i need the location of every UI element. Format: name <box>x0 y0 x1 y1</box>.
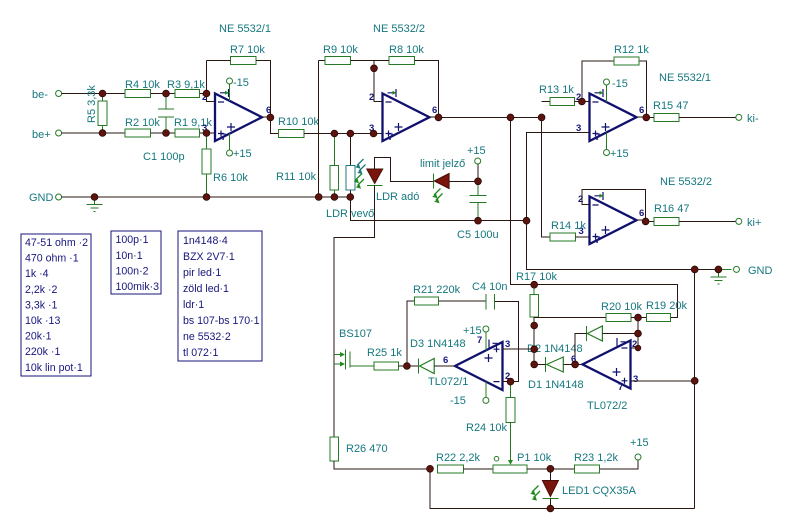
LDR vevo (photoresistor) <box>326 134 374 221</box>
op3 +15 power pin <box>604 132 629 160</box>
junction op2 output / R8 feedback <box>435 114 442 121</box>
svg-text:3: 3 <box>505 339 510 350</box>
terminal be- <box>32 89 62 101</box>
junction R13 / R12 / op3 pin2 <box>579 98 586 105</box>
resistor R22 2,2k <box>436 452 493 473</box>
svg-text:100p·1: 100p·1 <box>116 234 149 246</box>
junction R26 / R22 / bottom row <box>427 465 434 472</box>
svg-text:6: 6 <box>443 355 448 366</box>
op-amp U4 NE 5532/2 right <box>578 176 712 246</box>
TL072/1 -15 power pin <box>450 382 489 407</box>
svg-text:pir led·1: pir led·1 <box>183 267 221 279</box>
resistor R5 3,3k <box>86 85 107 133</box>
svg-text:NE 5532/1: NE 5532/1 <box>659 72 711 84</box>
diode D2 1N4148 <box>527 326 638 364</box>
svg-text:R12 1k: R12 1k <box>614 44 649 56</box>
wire LED ado anode to limit LED <box>375 157 434 181</box>
svg-text:R11 10k: R11 10k <box>276 171 317 183</box>
LED1 CQX35A <box>530 469 636 509</box>
wire R9-R8 junction to op2 pin2 <box>351 61 389 102</box>
parts table 3 <box>178 231 262 361</box>
parts table 2 <box>111 231 161 294</box>
svg-text:+15: +15 <box>467 145 486 157</box>
svg-text:bs 107-bs 170·1: bs 107-bs 170·1 <box>183 315 260 327</box>
LED LDR ado light arrows <box>354 174 364 189</box>
potentiometer P1 10k <box>493 422 552 473</box>
svg-text:6: 6 <box>639 208 644 219</box>
op-amp U1 NE 5532/1 <box>202 23 271 143</box>
junction R3 out / R7 feedback / op1 pin2 <box>203 90 210 97</box>
wire op1 pin2 jog <box>207 61 216 102</box>
junction D1 cathode node <box>531 361 538 368</box>
op-amp U5 TL072/1 (mirrored) <box>428 335 510 390</box>
svg-text:7: 7 <box>388 132 393 143</box>
diode D3 1N4148 <box>410 338 466 374</box>
capacitor C4 10n <box>472 281 507 310</box>
svg-text:R8 10k: R8 10k <box>389 44 424 56</box>
junction R5 bottom / be+ row <box>99 130 106 137</box>
svg-text:D1 1N4148: D1 1N4148 <box>528 379 584 391</box>
resistor R24 10k <box>466 382 515 434</box>
wire op2 output bus <box>439 116 542 118</box>
svg-text:R22 2,2k: R22 2,2k <box>436 452 481 464</box>
junction D2 drop / TL072-2 output <box>572 361 579 368</box>
svg-text:BZX 2V7·1: BZX 2V7·1 <box>183 251 235 263</box>
resistor R19 20k <box>646 300 687 322</box>
junction R17 bottom node <box>531 322 538 329</box>
svg-text:6: 6 <box>639 105 644 116</box>
op-amp U6 TL072/2 (mirrored) <box>571 338 638 412</box>
svg-text:R10 10k: R10 10k <box>278 116 319 128</box>
resistor R9 10k <box>323 44 358 65</box>
wire op3 pin3 from GND row <box>527 133 590 221</box>
junction op4 output / feedback / R16 <box>642 218 649 225</box>
svg-text:-15: -15 <box>450 395 466 407</box>
terminal +15 top <box>467 145 486 164</box>
wire GND net right <box>527 221 723 270</box>
resistor R23 1,2k <box>574 452 619 473</box>
op-amp U3 NE 5532/1 right <box>576 72 711 143</box>
svg-text:LED1 CQX35A: LED1 CQX35A <box>562 485 637 497</box>
junction TL072-1 pin2 / C4 feedback / R24 <box>507 378 514 385</box>
junction R20-R19 / TL072-2 pin2 <box>635 314 642 321</box>
junction sidechain bus / R17 top <box>531 281 538 288</box>
svg-text:3,3k ·1: 3,3k ·1 <box>25 299 57 311</box>
TL072/1 +15 power pin <box>463 325 489 351</box>
svg-text:100mik·3: 100mik·3 <box>116 281 160 293</box>
svg-text:be-: be- <box>32 89 48 101</box>
svg-text:LDR adó: LDR adó <box>376 191 419 203</box>
wire bottom row to LED1 and R23 <box>430 460 695 509</box>
svg-text:R14 1k: R14 1k <box>551 220 586 232</box>
svg-text:R24 10k: R24 10k <box>466 422 507 434</box>
junction limit LED / +15 / C5 <box>475 178 482 185</box>
svg-text:C4 10n: C4 10n <box>472 281 507 293</box>
svg-text:+15: +15 <box>610 148 629 160</box>
junction P1 out / LED1 anode / R23 <box>547 465 554 472</box>
terminal GND right <box>734 265 773 277</box>
wire GND drop to row 221 <box>350 197 526 221</box>
svg-text:R2 10k: R2 10k <box>125 117 160 129</box>
junction LED1 cathode / bottom row <box>547 505 554 512</box>
wire limit LED to +15 <box>449 164 478 181</box>
wire R9 left branch <box>319 61 326 198</box>
wire row op2 pin3 <box>304 133 383 135</box>
junction C5 bottom / GND row <box>475 217 482 224</box>
svg-text:+15: +15 <box>630 437 649 449</box>
wire bus down to R17/R19 row <box>511 117 678 317</box>
junction R4-R3 / C1 top <box>163 90 170 97</box>
svg-text:2: 2 <box>578 194 583 205</box>
svg-text:GND: GND <box>748 265 773 277</box>
junction op3 output / R12 / R15 <box>643 114 650 121</box>
terminal GND left <box>29 192 62 204</box>
transistor Q1 BS107 <box>334 328 374 370</box>
resistor R10 10k <box>278 116 319 138</box>
junction R11 bottom / GND rail <box>331 194 338 201</box>
svg-text:R25 1k: R25 1k <box>367 347 402 359</box>
resistor R26 470 <box>330 437 430 469</box>
junction TL072-2 pin3 / GND branch <box>691 377 698 384</box>
wire TL072/1 pin2 and C4 feedback <box>495 301 519 381</box>
svg-text:R9 10k: R9 10k <box>323 44 358 56</box>
resistor R21 220k <box>413 284 461 305</box>
svg-text:ne 5532·2: ne 5532·2 <box>183 331 231 343</box>
terminal ki- <box>736 113 759 125</box>
svg-text:1n4148·4: 1n4148·4 <box>183 235 228 247</box>
svg-text:-15: -15 <box>233 77 249 89</box>
svg-text:zöld led·1: zöld led·1 <box>183 283 229 295</box>
junction op2 output / sidechain bus <box>507 114 514 121</box>
svg-text:TL072/1: TL072/1 <box>428 376 468 388</box>
resistor R1 9,1k <box>174 117 212 137</box>
svg-text:470 ohm ·1: 470 ohm ·1 <box>25 253 79 265</box>
svg-text:C5 100u: C5 100u <box>457 229 499 241</box>
op1 +15 power pin <box>227 134 252 160</box>
junction LDR top / op2 pin3 row <box>347 130 354 137</box>
svg-text:7: 7 <box>595 132 600 143</box>
svg-text:7: 7 <box>221 132 226 143</box>
LED LDR ado <box>367 169 420 203</box>
junction op2 pin3 <box>370 130 377 137</box>
junction R11 top / op2 pin3 row <box>331 130 338 137</box>
svg-text:220k ·1: 220k ·1 <box>25 346 60 358</box>
junction TL072/1 pin3 / D1 node <box>531 346 538 353</box>
svg-text:+15: +15 <box>463 325 482 337</box>
svg-text:10k lin pot·1: 10k lin pot·1 <box>25 362 83 374</box>
resistor R17 10k <box>516 271 557 317</box>
junction R2-R1 / C1 bottom <box>163 130 170 137</box>
junction GND row / op3 pin3 / GND right <box>523 217 530 224</box>
wire op4 unity feedback <box>582 190 646 222</box>
svg-text:+15: +15 <box>233 148 252 160</box>
wire R17 bottom to R20 row and D1 <box>534 317 606 364</box>
svg-text:limit jelző: limit jelző <box>420 158 465 170</box>
svg-text:C1 100p: C1 100p <box>143 151 185 163</box>
wire be- row <box>62 93 207 95</box>
svg-text:R26 470: R26 470 <box>346 443 388 455</box>
resistor R25 1k <box>367 347 419 370</box>
resistor R15 47 <box>646 100 736 121</box>
junction GND rail / ground symbol <box>91 194 98 201</box>
svg-text:R15 47: R15 47 <box>653 100 688 112</box>
svg-text:100n·2: 100n·2 <box>116 265 149 277</box>
svg-text:R23 1,2k: R23 1,2k <box>574 452 619 464</box>
junction GND row / ground symbol right <box>715 266 722 273</box>
svg-text:TL072/2: TL072/2 <box>587 400 627 412</box>
svg-text:R13 1k: R13 1k <box>539 84 574 96</box>
junction LDR bottom / GND rail <box>347 194 354 201</box>
wire bus down to R13/R14 <box>542 102 551 238</box>
ground symbol left <box>87 197 103 212</box>
wire LED ado cathode down to BS107 <box>334 186 375 438</box>
junction GND row / right branch <box>691 266 698 273</box>
resistor R3 9,1k <box>167 79 205 98</box>
wire TL072/2 minus input net <box>631 318 639 348</box>
svg-text:20k·1: 20k·1 <box>25 331 52 343</box>
svg-text:R5 3,3k: R5 3,3k <box>86 85 98 123</box>
svg-text:be+: be+ <box>32 129 51 141</box>
svg-text:R20 10k: R20 10k <box>601 301 642 313</box>
svg-text:tl 072·1: tl 072·1 <box>183 347 218 359</box>
resistor R7 10k feedback <box>230 44 265 65</box>
svg-text:R21 220k: R21 220k <box>413 284 461 296</box>
resistor R20 10k <box>601 301 646 322</box>
terminal ki+ <box>736 217 762 229</box>
svg-text:P1 10k: P1 10k <box>517 452 552 464</box>
svg-text:-15: -15 <box>612 78 628 90</box>
wire TL072/1 pin3 <box>503 348 535 350</box>
svg-text:R19 20k: R19 20k <box>646 300 687 312</box>
svg-text:47-51 ohm ·2: 47-51 ohm ·2 <box>25 237 88 249</box>
svg-text:1k ·4: 1k ·4 <box>25 268 49 280</box>
svg-text:ldr·1: ldr·1 <box>183 299 204 311</box>
resistor R2 10k <box>125 117 160 137</box>
svg-text:10k ·13: 10k ·13 <box>25 315 60 327</box>
op1 -15 power pin <box>227 77 249 101</box>
svg-text:R17 10k: R17 10k <box>516 271 557 283</box>
resistor R12 1k <box>614 44 649 65</box>
svg-text:7: 7 <box>595 235 600 246</box>
junction R5 top / be- row <box>99 90 106 97</box>
svg-text:GND: GND <box>29 192 54 204</box>
junction R9-R8 / op2 pin2 drop <box>371 65 378 72</box>
junction op1 output / R7 / R10 <box>267 114 274 121</box>
svg-text:R7 10k: R7 10k <box>230 44 265 56</box>
junction D2 anode / pin2 net <box>635 330 642 337</box>
resistor R11 10k <box>276 134 339 198</box>
resistor R6 10k <box>202 133 248 197</box>
ground symbol right <box>711 269 732 284</box>
junction R6 bottom / GND rail <box>203 194 210 201</box>
svg-text:R16 47: R16 47 <box>654 203 689 215</box>
LED limit jelzo <box>420 158 465 203</box>
wire R8 feedback to output <box>415 61 439 118</box>
junction R9 branch / GND rail <box>315 194 322 201</box>
wire R7 loop <box>207 61 279 134</box>
junction TL072-2 pin2 entry <box>635 345 641 351</box>
svg-text:2,2k ·2: 2,2k ·2 <box>25 284 57 296</box>
terminal be+ <box>32 129 62 141</box>
svg-text:10n·1: 10n·1 <box>116 250 143 262</box>
capacitor C5 100u <box>457 181 499 241</box>
svg-text:3: 3 <box>633 374 638 385</box>
svg-text:R6 10k: R6 10k <box>213 172 248 184</box>
resistor R8 10k <box>389 44 424 65</box>
resistor R13 1k <box>539 84 575 106</box>
svg-text:7: 7 <box>618 382 623 393</box>
resistor R16 47 <box>646 203 736 225</box>
resistor R14 1k <box>550 220 590 241</box>
op-amp U2 NE 5532/2 <box>369 23 437 143</box>
svg-text:BS107: BS107 <box>339 328 372 340</box>
diode D1 1N4148 <box>528 357 584 391</box>
wire R12 feedback loop <box>582 61 646 118</box>
wire R21/C4 branch <box>407 301 486 366</box>
svg-text:ki-: ki- <box>747 113 759 125</box>
svg-text:NE 5532/2: NE 5532/2 <box>373 23 425 35</box>
svg-text:NE 5532/2: NE 5532/2 <box>660 176 712 188</box>
svg-text:NE 5532/1: NE 5532/1 <box>219 23 271 35</box>
junction R25 / D3 / R21 branch <box>404 363 411 370</box>
junction R1 out / R6 / op1 pin3 <box>203 130 210 137</box>
resistor R4 10k <box>125 79 160 98</box>
wire right vertical GND branch <box>694 269 696 508</box>
junction op2 output / R13-R14 bus <box>538 114 545 121</box>
wire TL072/2 plus input to GND net <box>631 380 695 382</box>
capacitor C1 100p <box>143 94 185 164</box>
svg-text:D3 1N4148: D3 1N4148 <box>410 338 466 350</box>
parts table 1 <box>21 234 91 376</box>
op3 -15 power pin <box>604 78 628 102</box>
terminal +15 bottom <box>630 437 649 460</box>
wire be+ row <box>62 132 215 134</box>
wire R13 to pin2 <box>575 101 590 103</box>
wire GND rail <box>62 196 351 198</box>
svg-text:ki+: ki+ <box>747 217 761 229</box>
